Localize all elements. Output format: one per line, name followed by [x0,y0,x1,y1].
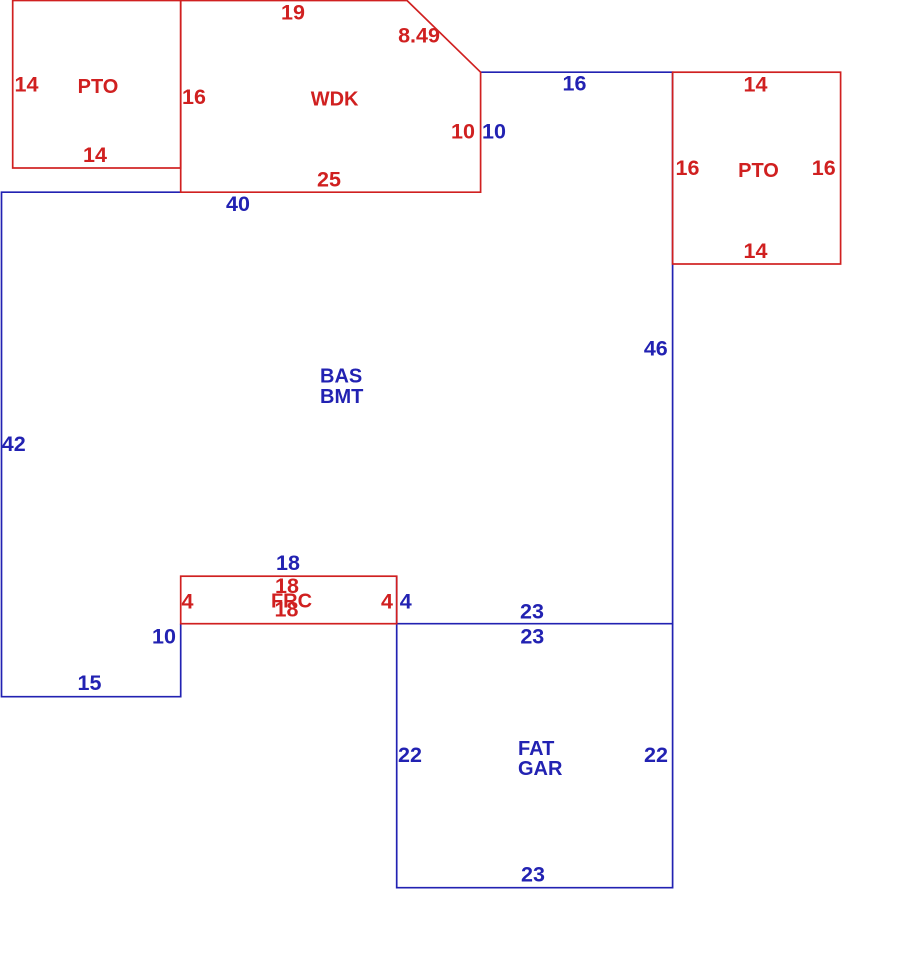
svg-text:10: 10 [152,625,176,649]
svg-text:4: 4 [400,590,412,614]
svg-text:FAT: FAT [518,738,554,760]
svg-text:GAR: GAR [518,758,563,780]
svg-text:14: 14 [744,72,768,96]
svg-text:BMT: BMT [320,386,363,408]
svg-text:16: 16 [182,85,206,109]
svg-text:4: 4 [381,590,393,614]
svg-text:42: 42 [2,432,26,456]
svg-text:WDK: WDK [311,89,359,111]
svg-text:25: 25 [317,168,341,192]
svg-text:15: 15 [78,671,102,695]
svg-text:23: 23 [520,600,544,624]
svg-text:16: 16 [812,156,836,180]
svg-text:22: 22 [644,743,668,767]
svg-text:40: 40 [226,192,250,216]
svg-text:14: 14 [15,72,39,96]
svg-text:FRC: FRC [271,590,312,612]
svg-text:23: 23 [520,625,544,649]
svg-text:4: 4 [182,590,194,614]
svg-text:14: 14 [744,239,768,263]
svg-text:BAS: BAS [320,365,362,387]
svg-text:PTO: PTO [738,160,779,182]
svg-text:19: 19 [281,1,305,25]
svg-text:46: 46 [644,336,668,360]
svg-text:8.49: 8.49 [398,24,440,48]
svg-text:18: 18 [276,551,300,575]
svg-text:22: 22 [398,743,422,767]
svg-text:14: 14 [83,143,107,167]
svg-text:16: 16 [676,156,700,180]
svg-text:PTO: PTO [78,76,119,98]
svg-text:16: 16 [563,72,587,96]
svg-text:10: 10 [451,120,475,144]
svg-text:23: 23 [521,863,545,887]
svg-text:10: 10 [482,120,506,144]
